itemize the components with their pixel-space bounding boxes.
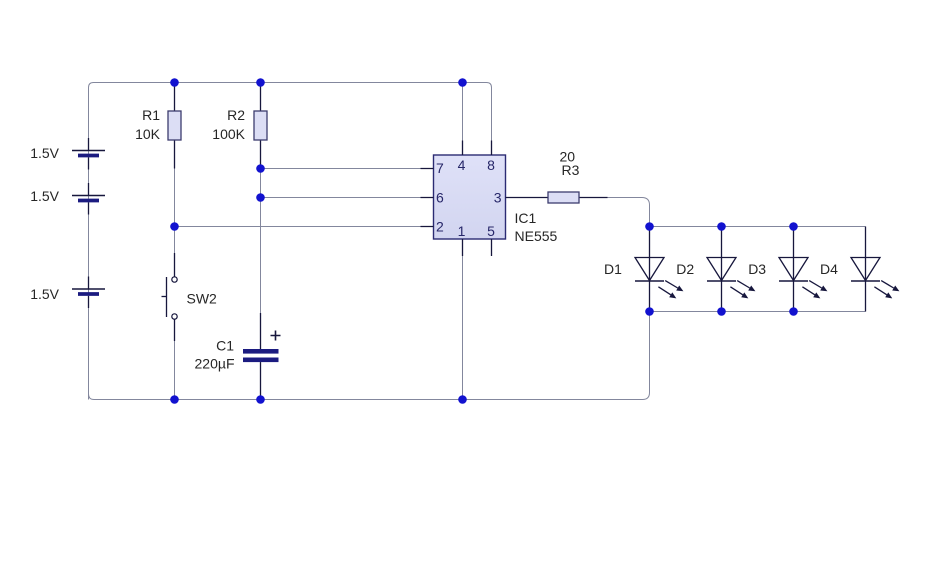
svg-text:1.5V: 1.5V: [30, 188, 59, 204]
svg-text:7: 7: [436, 160, 444, 176]
resistor R1: [168, 83, 181, 169]
svg-text:1.5V: 1.5V: [30, 286, 59, 302]
wire: LED anode rail: [650, 226, 866, 228]
wire: pin 1 drop to ground rail: [462, 239, 464, 400]
svg-text:R1: R1: [142, 107, 160, 123]
wire: R1 column from top rail: [174, 83, 176, 227]
node junction 13: [645, 307, 654, 316]
battery cell B2 1.5V: [72, 183, 105, 215]
wire: bottom ground rail to LED return riser: [89, 312, 650, 400]
node junction 12: [789, 222, 798, 231]
node junction 5: [256, 193, 265, 202]
node junction 11: [717, 222, 726, 231]
svg-text:D3: D3: [748, 261, 766, 277]
node junction 14: [717, 307, 726, 316]
wire: left rail and top rail to pin 8: [89, 83, 492, 400]
svg-text:R2: R2: [227, 107, 245, 123]
wire: node to pin 6: [261, 197, 434, 199]
node junction 4: [256, 164, 265, 173]
battery cell B3 1.5V: [72, 277, 105, 309]
node junction 15: [789, 307, 798, 316]
node junction 1: [170, 78, 179, 87]
node junction 3: [458, 78, 467, 87]
svg-text:D1: D1: [604, 261, 622, 277]
switch SW2 (push button): [162, 253, 178, 341]
node junction 8: [256, 395, 265, 404]
LED D4: [851, 227, 899, 312]
resistor R3: [548, 192, 608, 203]
svg-text:10K: 10K: [135, 126, 161, 142]
wire: node to pin 2: [175, 226, 434, 228]
wire: node to pin 7: [261, 168, 434, 170]
svg-text:D2: D2: [676, 261, 694, 277]
svg-text:220µF: 220µF: [195, 356, 235, 372]
node junction 9: [458, 395, 467, 404]
svg-text:C1: C1: [216, 338, 234, 354]
svg-text:D4: D4: [820, 261, 838, 277]
svg-text:NE555: NE555: [515, 228, 558, 244]
LED D2: [707, 227, 755, 312]
svg-text:1: 1: [458, 223, 466, 239]
svg-text:1.5V: 1.5V: [30, 145, 59, 161]
svg-text:SW2: SW2: [187, 291, 218, 307]
svg-text:100K: 100K: [212, 126, 245, 142]
wire: SW2 to ground rail: [174, 319, 176, 400]
battery cell B1 1.5V: [72, 138, 105, 170]
svg-text:2: 2: [436, 219, 444, 235]
svg-text:8: 8: [487, 157, 495, 173]
node junction 6: [170, 222, 179, 231]
wire: LED cathode rail: [650, 311, 866, 313]
LED D3: [779, 227, 827, 312]
svg-text:5: 5: [487, 223, 495, 239]
wire: R1 column down to SW2: [174, 227, 176, 275]
svg-text:R3: R3: [562, 162, 580, 178]
wire: R2 / C1 column upper: [260, 83, 262, 350]
IC1 pin stubs: [421, 141, 549, 257]
LED D1: [635, 227, 683, 312]
wire: pin 4 riser to top rail: [462, 83, 464, 156]
wire: C1 column lower: [260, 362, 262, 400]
capacitor C1 (polarized 220uF): [243, 313, 281, 400]
node junction 10: [645, 222, 654, 231]
svg-text:IC1: IC1: [515, 210, 537, 226]
node junction 7: [170, 395, 179, 404]
svg-text:6: 6: [436, 190, 444, 206]
node junction 2: [256, 78, 265, 87]
wire: R3 output to LED bank: [607, 198, 650, 227]
svg-text:4: 4: [458, 157, 466, 173]
svg-text:3: 3: [494, 190, 502, 206]
resistor R2: [254, 83, 267, 169]
